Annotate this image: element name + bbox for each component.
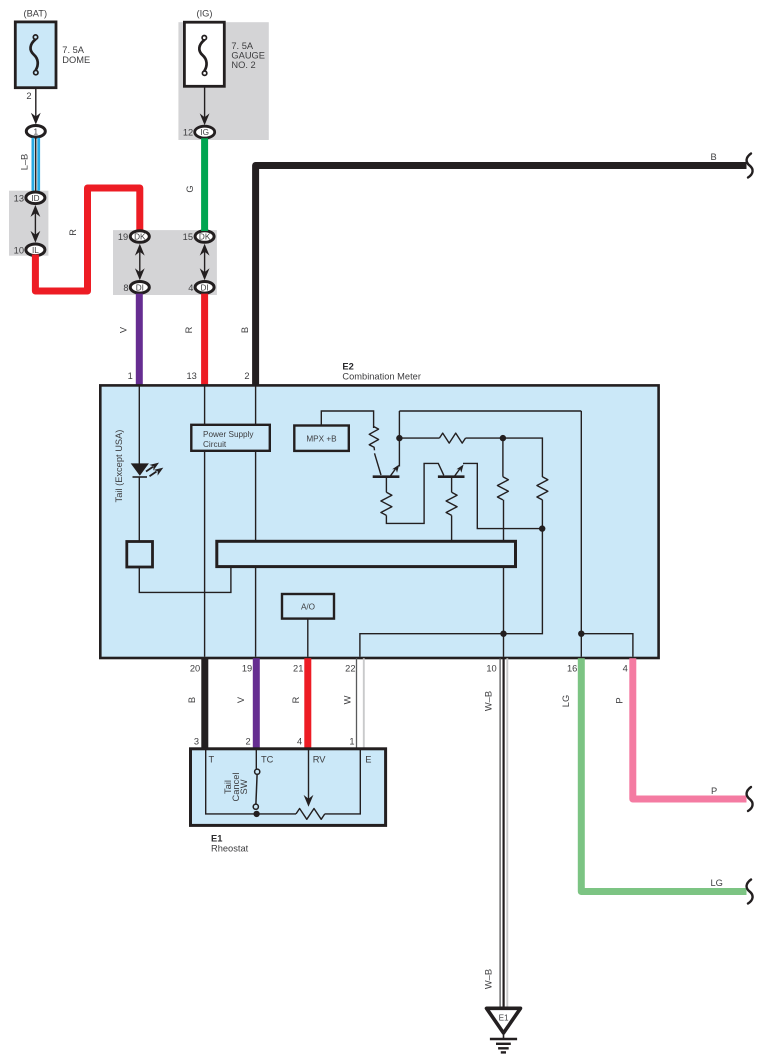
double arrow DK-DI left <box>139 246 141 278</box>
svg-text:W: W <box>343 695 353 704</box>
continuation squiggle P <box>747 787 753 811</box>
LED D1 <box>131 460 166 477</box>
rheostat resistor R7 <box>296 809 325 820</box>
power supply circuit box U1 <box>191 425 269 451</box>
wire horizontal to pin 22 <box>360 634 504 657</box>
junction node R2 right <box>500 435 506 441</box>
wire R red DI(4) to E2 pin 13 <box>201 294 208 385</box>
svg-text:8: 8 <box>123 283 128 293</box>
wire node down to horizontal run <box>504 529 543 634</box>
wire Q2 emitter to long bar <box>451 515 453 542</box>
wire R1 to Q1 base <box>375 453 382 475</box>
svg-text:20: 20 <box>190 663 200 673</box>
wire node to R2 <box>399 437 439 439</box>
wire T down and across <box>206 750 251 814</box>
svg-text:MPX +B: MPX +B <box>306 435 337 444</box>
A/O box U3 <box>282 594 334 619</box>
svg-text:2: 2 <box>246 737 251 747</box>
svg-text:16: 16 <box>567 663 577 673</box>
svg-text:E1: E1 <box>499 1014 509 1023</box>
wire L-B (blue with black stripe) <box>33 138 39 192</box>
connector oval ID <box>26 192 45 204</box>
wire pin1 to LED <box>138 386 140 464</box>
svg-text:10: 10 <box>14 245 24 255</box>
svg-text:E2: E2 <box>342 362 353 372</box>
junction node R6 bottom <box>539 525 545 531</box>
svg-text:DK: DK <box>134 233 146 242</box>
wire collector Q1 vertical <box>398 411 400 467</box>
wire V purple DI(8) to E2 pin 1 <box>136 294 143 385</box>
wire resistor to E leg <box>325 750 361 814</box>
wire power supply down to pin 20 <box>204 451 206 657</box>
svg-text:R: R <box>184 326 194 333</box>
junction node pin16 column <box>578 631 584 637</box>
svg-text:Circuit: Circuit <box>203 440 227 449</box>
resistor R1 (slanted) <box>369 427 378 451</box>
svg-text:DK: DK <box>199 233 211 242</box>
svg-text:4: 4 <box>297 737 302 747</box>
E2 box <box>100 385 658 658</box>
wire node right and down to pin 4 <box>581 634 633 657</box>
connector oval 1 <box>26 126 45 138</box>
connector oval DI (4) <box>195 282 214 294</box>
connector oval DI (8) <box>130 282 149 294</box>
wire MPX+B to resistor R1 <box>321 411 373 428</box>
svg-text:7. 5A: 7. 5A <box>62 45 85 55</box>
svg-text:E: E <box>365 755 371 765</box>
gray block around IG fuse <box>178 22 268 140</box>
svg-text:13: 13 <box>186 371 196 381</box>
svg-text:Combination Meter: Combination Meter <box>342 371 421 381</box>
wire power supply down to pin 19 (through bar) <box>255 451 257 657</box>
svg-text:ID: ID <box>31 194 39 203</box>
svg-text:Tail (Except USA): Tail (Except USA) <box>114 430 124 503</box>
double arrow ID-IL <box>34 208 36 240</box>
svg-text:R: R <box>291 696 301 703</box>
wire top rail down x=581 <box>580 411 582 657</box>
svg-text:R: R <box>68 229 78 236</box>
wire R5 down to node (passes behind bar) <box>503 500 505 634</box>
fuse element symbol <box>31 39 38 70</box>
wire R red from IL to DK <box>35 188 139 291</box>
connector oval DK (19) <box>130 231 149 243</box>
wire G green IG to DK(15) <box>201 138 208 231</box>
svg-text:SW: SW <box>239 779 249 794</box>
wire pin2 to power supply <box>255 386 257 425</box>
junction node Q1 collector <box>396 435 402 441</box>
svg-text:15: 15 <box>183 232 193 242</box>
svg-text:13: 13 <box>14 193 24 203</box>
fuse element symbol <box>199 40 206 71</box>
svg-text:4: 4 <box>623 663 628 673</box>
svg-text:V: V <box>119 326 129 333</box>
transistor Q1 <box>373 463 402 477</box>
svg-text:W–B: W–B <box>484 691 494 711</box>
junction node below switch <box>253 811 259 817</box>
connector oval DK (15) <box>195 231 214 243</box>
wire A/O to pin 21 <box>307 619 309 657</box>
svg-text:P: P <box>711 786 717 796</box>
junction node at pin10 column <box>500 631 506 637</box>
wire fuse to connector IG <box>204 86 206 119</box>
continuation squiggle LG <box>747 880 753 904</box>
svg-text:Power Supply: Power Supply <box>203 430 254 439</box>
resistor R2 horizontal <box>439 433 465 443</box>
svg-text:W–B: W–B <box>484 969 494 989</box>
svg-text:12: 12 <box>183 128 193 138</box>
wire switch to rheostat resistor <box>251 813 296 815</box>
svg-text:19: 19 <box>118 232 128 242</box>
svg-text:(BAT): (BAT) <box>24 9 48 19</box>
svg-text:IL: IL <box>32 246 39 255</box>
top rail collector <box>399 410 581 412</box>
wire fuse to connector 1 <box>35 88 37 119</box>
long internal bar <box>217 541 516 566</box>
svg-text:LG: LG <box>561 695 571 707</box>
label Tail Cancel SW rotated <box>223 773 249 802</box>
connector oval IG <box>195 126 215 138</box>
svg-text:B: B <box>711 152 717 162</box>
svg-text:G: G <box>185 185 195 192</box>
svg-text:2: 2 <box>26 91 31 101</box>
svg-text:4: 4 <box>188 283 193 293</box>
resistor R6 vertical at x=542 <box>537 477 548 500</box>
wire small box to long bar <box>139 567 231 593</box>
arrowhead into IG <box>200 113 210 125</box>
svg-text:2: 2 <box>244 371 249 381</box>
fuse FUSE2 7.5A GAUGE NO.2 box <box>184 22 224 86</box>
svg-text:19: 19 <box>242 663 252 673</box>
svg-text:TC: TC <box>261 755 274 765</box>
Q2 emitter resistor R4 <box>451 478 453 492</box>
svg-text:1: 1 <box>34 127 39 136</box>
svg-text:IG: IG <box>200 128 209 137</box>
svg-text:B: B <box>240 327 250 333</box>
wire R2 to node <box>466 437 503 439</box>
svg-text:L–B: L–B <box>20 154 30 171</box>
svg-text:21: 21 <box>293 663 303 673</box>
wire V purple pin 19 to TC <box>253 658 260 748</box>
svg-text:E1: E1 <box>211 834 222 844</box>
svg-text:3: 3 <box>194 737 199 747</box>
resistor R5 vertical at x=503 <box>502 441 504 477</box>
svg-text:LG: LG <box>711 878 723 888</box>
svg-text:DOME: DOME <box>62 55 90 65</box>
arrowhead into connector 1 <box>31 113 41 125</box>
svg-text:B: B <box>187 697 197 703</box>
wire W white pin 22 to E <box>357 658 364 748</box>
svg-text:1: 1 <box>128 371 133 381</box>
wire node down to pin 10 <box>503 634 505 657</box>
Q1 emitter resistor R3 <box>385 478 387 492</box>
wire Q2 collector right and down to node <box>463 463 542 528</box>
svg-text:T: T <box>209 755 215 765</box>
MPX +B box U2 <box>294 426 349 451</box>
svg-text:DI: DI <box>136 283 144 292</box>
double arrow DK-DI right <box>204 246 206 278</box>
svg-text:RV: RV <box>313 755 327 765</box>
small internal box <box>127 542 153 568</box>
wire node right and down x=542 <box>503 438 543 477</box>
connector oval IL <box>26 244 45 256</box>
continuation squiggle B <box>747 154 753 178</box>
wire B black pin 20 to T <box>201 658 208 748</box>
wiper arrow from RV <box>308 750 310 799</box>
wire R red pin 21 to RV <box>304 658 311 748</box>
svg-text:V: V <box>236 696 246 703</box>
svg-text:Rheostat: Rheostat <box>211 844 249 854</box>
svg-text:P: P <box>615 697 625 703</box>
svg-text:10: 10 <box>486 663 496 673</box>
svg-text:NO. 2: NO. 2 <box>231 60 255 70</box>
svg-text:(IG): (IG) <box>196 9 212 19</box>
switch S1 tail cancel <box>253 750 260 809</box>
transistor Q2 <box>438 463 466 477</box>
wire pin13 to power supply <box>204 386 206 425</box>
wire Q1 emitter to Q2 base <box>386 463 443 523</box>
svg-text:1: 1 <box>349 737 354 747</box>
fuse FUSE1 7.5A DOME box <box>15 22 56 88</box>
svg-text:DI: DI <box>201 283 209 292</box>
svg-text:A/O: A/O <box>301 603 315 612</box>
wire LED to small box <box>138 477 140 542</box>
svg-text:22: 22 <box>345 663 355 673</box>
